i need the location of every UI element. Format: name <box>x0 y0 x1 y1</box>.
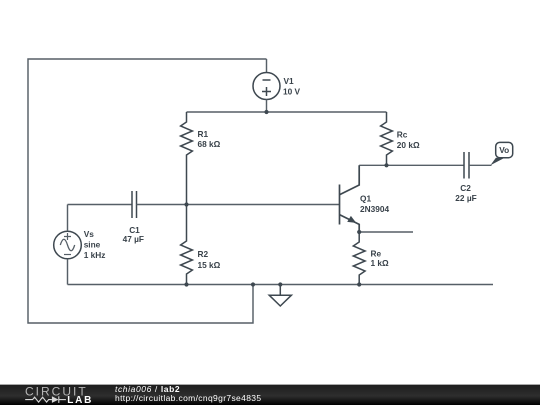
svg-text:Vs: Vs <box>84 229 95 239</box>
svg-text:C2: C2 <box>460 183 471 193</box>
source Vs <box>54 231 82 259</box>
capacitor C2 <box>463 152 465 179</box>
wire emitter stub right <box>359 231 413 233</box>
output flag Vo <box>496 142 513 157</box>
wire collector rail y165 <box>359 164 464 166</box>
wire top loop <box>28 59 267 323</box>
resistor R1 <box>181 112 193 205</box>
wire Vs bottom stub <box>67 259 69 285</box>
junction node emitter <box>357 230 361 234</box>
junction node Rc-collector <box>384 163 388 167</box>
wire input rail y204.5 <box>68 204 133 206</box>
resistor Rc <box>381 112 393 165</box>
junction node R1-R2-base <box>184 202 188 206</box>
wire supply rail y112 <box>187 111 387 113</box>
wire V1 bottom stub <box>266 100 268 113</box>
wire V1 top stub <box>266 59 268 73</box>
svg-text:20 kΩ: 20 kΩ <box>397 140 420 150</box>
resistor Re <box>353 232 365 285</box>
svg-text:10 V: 10 V <box>283 86 301 96</box>
svg-text:Vo: Vo <box>499 145 509 155</box>
transistor Q1 <box>340 165 360 232</box>
footer url text <box>115 394 261 402</box>
resistor R2 <box>181 205 193 285</box>
junction node loop-bottom <box>251 282 255 286</box>
svg-text:V1: V1 <box>284 76 295 86</box>
svg-text:Q1: Q1 <box>360 193 371 203</box>
footer title text <box>115 385 180 393</box>
Vo flag pointer <box>490 158 504 166</box>
svg-text:15 kΩ: 15 kΩ <box>198 260 221 270</box>
svg-text:47 µF: 47 µF <box>123 234 144 244</box>
wire bottom rail y284.5 <box>68 284 494 286</box>
junction node R2-bottom <box>184 282 188 286</box>
junction node Re-bottom <box>357 282 361 286</box>
CircuitLab logo <box>24 385 124 405</box>
svg-text:sine: sine <box>84 240 101 250</box>
wire C2 to Vo <box>469 164 492 166</box>
wire Vs top stub <box>67 205 69 232</box>
footer bar <box>0 384 540 405</box>
svg-text:Re: Re <box>371 248 382 258</box>
ground <box>269 285 291 307</box>
svg-text:2N3904: 2N3904 <box>360 204 389 214</box>
svg-text:1 kΩ: 1 kΩ <box>371 258 390 268</box>
junction node ground <box>278 282 282 286</box>
svg-text:R2: R2 <box>198 249 209 259</box>
voltage source V1 <box>253 73 280 100</box>
svg-text:LAB: LAB <box>67 395 93 405</box>
svg-text:1 kHz: 1 kHz <box>84 250 106 260</box>
Q1 emitter arrow <box>347 216 356 223</box>
svg-text:R1: R1 <box>198 129 209 139</box>
wire C1 to base <box>137 204 340 206</box>
svg-text:22 µF: 22 µF <box>455 193 476 203</box>
svg-text:Rc: Rc <box>397 130 408 140</box>
capacitor C1 <box>131 191 133 218</box>
junction node V1-rail <box>264 110 268 114</box>
svg-text:68 kΩ: 68 kΩ <box>198 139 221 149</box>
